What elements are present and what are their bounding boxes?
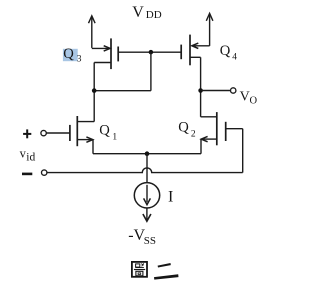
node gate dot	[149, 50, 154, 55]
wire minus line with hop	[47, 168, 243, 173]
svg-text:Q: Q	[63, 46, 74, 62]
svg-text:4: 4	[232, 53, 237, 63]
power VSS arrow down	[143, 208, 151, 221]
terminal input minus circle	[42, 170, 47, 175]
wire left column Q3 drain to Q1 drain	[93, 63, 95, 122]
wire tail horizontal	[93, 153, 201, 155]
label minus	[22, 173, 32, 176]
node output dot	[198, 88, 203, 93]
power VDD arrow left	[89, 16, 96, 48]
svg-text:V: V	[132, 4, 144, 21]
svg-text:O: O	[250, 95, 258, 106]
svg-text:V: V	[240, 89, 250, 104]
svg-text:I: I	[168, 189, 173, 206]
svg-text:id: id	[26, 151, 35, 163]
wire Q1 source to tail	[92, 140, 94, 154]
svg-text:Q: Q	[178, 120, 189, 136]
svg-text:2: 2	[191, 130, 196, 140]
terminal VO circle	[231, 88, 236, 93]
transistor Q3	[92, 38, 118, 69]
svg-text:Q: Q	[220, 43, 231, 59]
svg-text:1: 1	[112, 132, 117, 142]
wire gate mirror line	[118, 51, 181, 53]
transistor Q2	[201, 112, 243, 145]
node A dot	[92, 88, 97, 93]
wire mirror lower horizontal	[94, 90, 151, 92]
wire mirror vertical	[150, 52, 152, 90]
caption glyph 二	[154, 263, 179, 280]
wire tail down to current source	[146, 154, 148, 183]
power VDD arrow right	[206, 13, 213, 46]
node tail dot	[145, 151, 150, 156]
svg-text:3: 3	[77, 54, 82, 64]
transistor Q4	[181, 35, 209, 66]
caption glyph 圖	[132, 262, 147, 277]
terminal input plus circle	[41, 130, 46, 135]
svg-text:DD: DD	[146, 9, 162, 21]
transistor Q1	[46, 116, 94, 146]
wire Q2 source to tail	[200, 139, 202, 154]
wire right column Q4 drain to Q2 drain	[200, 57, 202, 117]
wire Q2 gate down	[242, 129, 244, 173]
current source I	[134, 183, 159, 208]
label Q3 highlight	[63, 49, 78, 61]
svg-text:SS: SS	[144, 235, 156, 247]
wire output	[201, 90, 231, 92]
label plus	[23, 129, 31, 138]
svg-text:Q: Q	[99, 123, 110, 139]
